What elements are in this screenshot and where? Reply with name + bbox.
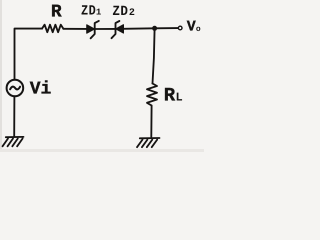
svg-text:2: 2	[129, 8, 135, 19]
svg-text:Vi: Vi	[30, 80, 52, 100]
svg-text:ZD: ZD	[112, 4, 128, 20]
svg-text:V: V	[187, 19, 196, 36]
resistor R	[42, 25, 63, 33]
zener diode ZD1	[87, 21, 99, 38]
wire source to ground	[13, 96, 15, 136]
resistor RL	[147, 84, 157, 106]
node junction dot	[152, 26, 157, 31]
ground right	[137, 138, 160, 147]
wire top-left corner to resistor R	[15, 29, 43, 80]
svg-text:o: o	[196, 25, 201, 34]
svg-text:R: R	[164, 85, 176, 107]
wire node to output terminal	[155, 27, 178, 29]
wire RL to ground	[150, 106, 152, 137]
ground left	[3, 137, 24, 146]
svg-text:ZD: ZD	[81, 4, 96, 20]
wire node down to RL	[153, 28, 155, 83]
svg-text:L: L	[176, 91, 183, 105]
paper background	[0, 0, 204, 152]
output terminal circle Vo	[178, 26, 182, 30]
ac source Vi circle	[7, 80, 24, 97]
svg-text:1: 1	[96, 8, 102, 18]
svg-text:R: R	[51, 2, 62, 22]
zener diode ZD2	[112, 21, 124, 38]
wire ZD2 to output node	[123, 27, 154, 30]
ac source sine symbol	[10, 87, 20, 90]
wire resistor to ZD1	[63, 28, 87, 30]
wire between ZD1 and ZD2	[95, 28, 116, 30]
